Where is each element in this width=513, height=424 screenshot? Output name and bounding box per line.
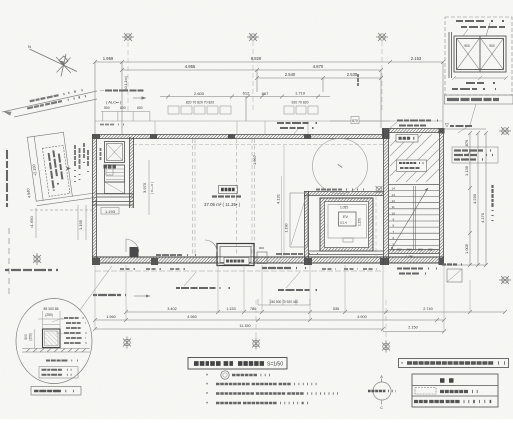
svg-text:10: 10: [392, 211, 396, 215]
svg-text:2.150: 2.150: [408, 326, 418, 330]
svg-text:900: 900: [418, 248, 423, 252]
note: dims are to structural core (bottom-left): [5, 269, 64, 271]
svg-text:1.190: 1.190: [285, 224, 289, 233]
inset leader lines: [463, 23, 490, 36]
svg-text:867: 867: [262, 91, 269, 96]
detail column size box: [39, 367, 78, 379]
stair bottom small dims: [397, 248, 433, 259]
EV room left wall: [305, 191, 309, 265]
svg-text:9.820: 9.820: [251, 56, 262, 61]
tenant label: [204, 186, 242, 208]
EV room dashed line: [375, 196, 377, 256]
inset bottom dim: [452, 76, 508, 80]
title box: [188, 358, 287, 370]
door swing at entrance: [205, 240, 217, 252]
svg-text:*: *: [206, 402, 208, 408]
dim chain top row 4: [160, 95, 330, 122]
columns on top wall: [92, 128, 445, 139]
rotated note kutai-shin: [357, 74, 359, 88]
interior dim line pair with 4.131: [282, 145, 285, 258]
svg-text:S=1/50: S=1/50: [267, 362, 283, 368]
svg-text:4.900: 4.900: [357, 315, 367, 319]
tenant partition dashed lines: [193, 139, 255, 258]
inset left wall: [449, 32, 452, 78]
svg-text:3.970: 3.970: [142, 182, 147, 193]
detail dims left of column: [24, 329, 35, 348]
bottom dim row 1: [124, 310, 507, 314]
bottom tiny dims cluster: [258, 299, 310, 305]
stair upper hatch area: [390, 134, 439, 182]
left extension line: [78, 205, 86, 240]
tiny note above wall left: [100, 124, 126, 126]
svg-text:876: 876: [464, 139, 469, 146]
bottom handrail note right of entrance: [262, 254, 318, 268]
svg-text:2.540: 2.540: [285, 72, 296, 77]
svg-text:( ALC•• ): ( ALC•• ): [106, 100, 122, 105]
grid marker top 2: [247, 33, 259, 41]
detail circle bottom-left: [16, 299, 92, 384]
svg-text:4: 4: [393, 249, 395, 253]
garbage store box: [217, 244, 254, 266]
svg-text:870: 870: [352, 119, 358, 123]
right dim chain line 1: [444, 129, 486, 267]
svg-text:1.195: 1.195: [78, 219, 83, 230]
stair wing mid wall: [384, 128, 389, 265]
svg-text:1.150: 1.150: [358, 218, 362, 226]
bottom leader diagonal left: [176, 272, 232, 288]
handrail note above plan: [277, 123, 322, 134]
svg-text:1.153: 1.153: [226, 307, 236, 311]
grid marker bottom right: [382, 341, 390, 353]
door frame left of EV room: [290, 193, 308, 247]
dim chain top row 2: [120, 68, 383, 128]
left frame dashed stub: [8, 228, 10, 298]
interior vertical dim 3.970: [142, 160, 154, 215]
bottom ALC note with arrow: [93, 295, 150, 298]
compass letters: [380, 375, 383, 410]
note line 3: [206, 392, 341, 398]
balcony lower edge line: [95, 270, 383, 272]
escape stair clearance note box: [399, 359, 509, 369]
svg-text:600: 600: [137, 106, 143, 110]
svg-text:*: *: [206, 392, 208, 398]
stair center stringer: [414, 186, 416, 250]
svg-text:1.719: 1.719: [295, 91, 306, 96]
svg-text:4.170: 4.170: [480, 212, 485, 223]
road edge lines top-left: [2, 91, 97, 117]
legend table: [412, 374, 498, 407]
svg-text:4.870: 4.870: [313, 64, 324, 69]
bottom wall tick labels: [120, 268, 377, 270]
core room divider: [92, 202, 133, 206]
svg-text:11.150: 11.150: [239, 324, 250, 328]
left dim line lower: [30, 208, 95, 238]
svg-text:*: *: [206, 383, 208, 389]
left vertical site-boundary note: [6, 150, 8, 207]
svg-text:4.955: 4.955: [185, 64, 196, 69]
svg-text:A: A: [380, 375, 383, 379]
note line handrail above plan left: [100, 90, 104, 92]
svg-text:(250): (250): [45, 313, 52, 317]
svg-text:*: *: [206, 374, 208, 380]
svg-text:300: 300: [24, 334, 28, 340]
svg-text:(•2.1-1•••): (•2.1-1•••): [124, 76, 128, 90]
detail circle leader: [80, 266, 112, 310]
handrail note under stair wing: [397, 269, 437, 274]
svg-text:7: 7: [393, 230, 395, 234]
svg-text:•1.650: •1.650: [29, 216, 34, 228]
EV top annotation: [316, 189, 364, 191]
EV room top wall: [304, 192, 384, 196]
detail caption box: [31, 387, 81, 396]
svg-text:1.385: 1.385: [406, 255, 413, 259]
svg-text:500: 500: [104, 106, 110, 110]
stair treads: [389, 191, 439, 246]
grid line stubs from top markers: [128, 41, 386, 341]
right margin note stair handrail top: [445, 124, 449, 128]
inset caption box: [445, 95, 513, 104]
detail dims above column: [38, 307, 64, 329]
bottom leader note left (finish line note): [156, 254, 200, 256]
window mullion dims left: [168, 101, 231, 115]
svg-text:780: 780: [250, 307, 256, 311]
inset bottom note 2: [452, 88, 496, 90]
core tiny labels: [100, 148, 102, 160]
core right wall: [130, 137, 134, 208]
bottom leader diagonal right: [278, 272, 326, 290]
dashed ceiling circle: [313, 139, 368, 194]
outdoor unit label box: [396, 135, 418, 143]
outer wall left: [93, 134, 97, 265]
svg-text:900: 900: [489, 44, 495, 48]
detail column square: [43, 329, 61, 348]
svg-text:1.960: 1.960: [106, 315, 116, 319]
road caption text: [26, 89, 90, 109]
outer wall top: [92, 135, 389, 139]
svg-text:900: 900: [259, 246, 264, 250]
svg-text:8: 8: [393, 224, 395, 228]
small grid marker at EV corner: [376, 186, 383, 193]
svg-text:C: C: [380, 406, 383, 410]
svg-text:6: 6: [393, 236, 395, 240]
svg-text:N: N: [28, 44, 31, 49]
svg-text:1.005: 1.005: [464, 243, 469, 254]
stair mid landing line: [389, 184, 439, 186]
bottom dim labels row 1: [167, 307, 433, 311]
svg-text:1.139: 1.139: [464, 165, 469, 176]
door swing bottom-left: [126, 239, 139, 252]
stair wing top wall: [383, 129, 444, 133]
inset note line 2: [461, 26, 505, 28]
svg-text:2.740: 2.740: [423, 307, 433, 311]
right standpipe note box: [452, 147, 498, 163]
north arrow: [28, 44, 77, 77]
window sill dashed line below top wall: [133, 144, 383, 146]
svg-text:1.997: 1.997: [252, 154, 257, 165]
svg-text:900: 900: [464, 44, 470, 48]
note line 2: [206, 383, 318, 389]
compass bottom right: [373, 379, 391, 405]
svg-text:(11.•): (11.•): [340, 221, 347, 225]
svg-text:2.530: 2.530: [347, 72, 358, 77]
EV hall divider wall: [309, 251, 383, 255]
detail base hatch: [22, 349, 90, 353]
svg-text:1.193: 1.193: [105, 209, 116, 214]
columns on bottom wall: [92, 258, 444, 265]
svg-text:1.959: 1.959: [103, 56, 114, 61]
grid marker top 1: [122, 33, 134, 41]
inset note line 1: [456, 20, 509, 22]
svg-text:820 70 820 70 820: 820 70 820 70 820: [186, 101, 214, 105]
dim chain top row 1: [93, 60, 445, 134]
stair wing bottom landing wall: [389, 250, 439, 254]
boxed dim 1.193: [101, 208, 119, 215]
grid marker bottom center: [252, 338, 260, 350]
bottom dim row 3: [93, 327, 385, 331]
grid marker right upper: [499, 127, 511, 135]
svg-text:300: 300: [428, 248, 433, 252]
dim chain top row 3: [255, 76, 383, 92]
svg-text:37.05 m² ( 11.35• ): 37.05 m² ( 11.35• ): [204, 202, 241, 207]
svg-text:240 500 70 920 440: 240 500 70 920 440: [270, 300, 299, 304]
inset cross braces: [457, 39, 503, 69]
svg-text:612: 612: [243, 91, 250, 96]
svg-text:( ••—•• ): ( ••—•• ): [150, 182, 154, 194]
wall hatch fills: [92, 128, 444, 265]
svg-text:(250): (250): [29, 333, 33, 340]
grid marker top 3: [376, 33, 388, 41]
bottom dim row 4: [383, 330, 446, 334]
entrance notes right of block: [75, 143, 88, 182]
svg-text:9: 9: [393, 218, 395, 222]
inset detail top-right: dashed border: [445, 17, 512, 95]
svg-text:*: *: [401, 362, 403, 368]
dim line with boxed label above wing: [330, 117, 390, 124]
grid marker right lower: [499, 276, 511, 284]
right bottom small detail rect: [447, 269, 462, 282]
stair direction line: [391, 188, 428, 249]
left annotation block (rotated): [19, 129, 96, 207]
svg-text:12: 12: [392, 199, 396, 203]
elevator shaft left core: [105, 142, 125, 163]
svg-text:300: 300: [397, 248, 402, 252]
outdoor stair label box: [397, 160, 427, 172]
right bottom stair center note: [442, 263, 465, 265]
outer wall right: [440, 128, 444, 265]
svg-text:535: 535: [333, 307, 339, 311]
bottom dim row 2: [93, 318, 446, 322]
handrail note right of wing top: [390, 121, 440, 129]
EV shaft right: [320, 198, 373, 251]
note ALC kutai left with arrow: [106, 96, 146, 104]
svg-text:2.600: 2.600: [194, 91, 205, 96]
right vertical ALC note: [491, 185, 493, 222]
detail notes right: [64, 318, 89, 343]
dark column bottom-left interior: [130, 247, 139, 257]
right dim chain line 2: [476, 131, 480, 267]
detail leader from square to notes: [52, 318, 65, 334]
svg-text:4.131: 4.131: [276, 193, 281, 204]
inset handrail frame: [454, 36, 506, 72]
note line 4: [206, 402, 310, 408]
svg-text:4.960: 4.960: [187, 315, 197, 319]
svg-text:2.153: 2.153: [411, 56, 422, 61]
small service box right of garbage: [257, 252, 267, 264]
dim base line above wall: [95, 121, 443, 134]
svg-text:900: 900: [407, 248, 412, 252]
outer wall bottom: [92, 257, 444, 263]
inset bottom note 1: [466, 82, 500, 84]
leader from inset caption to roof wing: [458, 104, 476, 133]
detail scale note: [46, 360, 80, 362]
svg-text:1.055: 1.055: [340, 206, 348, 210]
svg-text:11: 11: [392, 205, 395, 209]
pipe shaft below elevator: [97, 165, 133, 198]
bottom dim labels row 2: [106, 315, 367, 319]
stair tread numbers: [392, 187, 396, 253]
svg-text:4.230: 4.230: [472, 193, 477, 204]
svg-text:600: 600: [120, 106, 126, 110]
svg-text:14: 14: [392, 187, 396, 191]
bottom extension lines: [95, 265, 470, 331]
svg-text:3.402: 3.402: [167, 307, 177, 311]
right dim chain line 3: [484, 131, 488, 267]
window mullion dims right: [284, 101, 318, 115]
note line 1 with circle mark: [206, 371, 271, 380]
grid marker bottom left: [123, 337, 131, 349]
svg-text:920 70 820: 920 70 820: [292, 101, 309, 105]
svg-text:85 300 85: 85 300 85: [43, 307, 58, 311]
grid marker left: [33, 253, 41, 265]
svg-text:13: 13: [392, 193, 396, 197]
svg-text:EV: EV: [343, 215, 349, 219]
